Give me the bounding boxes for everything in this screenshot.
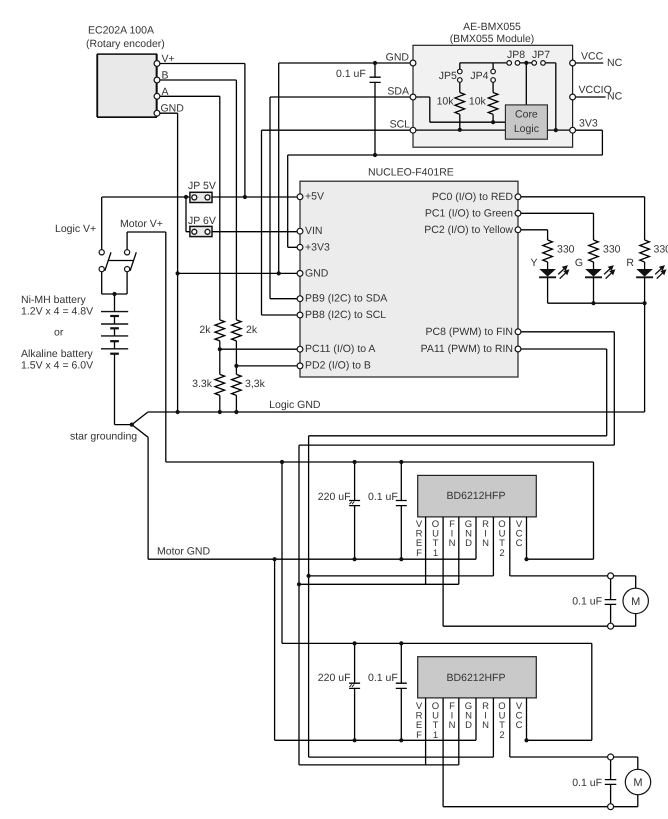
svg-text:0.1 uF: 0.1 uF	[368, 491, 398, 503]
svg-text:330: 330	[557, 243, 575, 255]
svg-text:PD2 (I/O) to B: PD2 (I/O) to B	[305, 360, 371, 372]
svg-text:PC0 (I/O) to RED: PC0 (I/O) to RED	[432, 191, 514, 203]
svg-text:10k: 10k	[437, 96, 455, 108]
svg-text:B: B	[162, 70, 169, 82]
svg-text:Core: Core	[515, 109, 538, 121]
svg-text:PC2 (I/O) to Yellow: PC2 (I/O) to Yellow	[424, 224, 513, 236]
svg-text:(BMX055 Module): (BMX055 Module)	[450, 33, 535, 45]
svg-text:VCC: VCC	[581, 51, 604, 63]
svg-text:N: N	[449, 720, 456, 731]
svg-text:3,3k: 3,3k	[245, 378, 266, 390]
svg-text:SCL: SCL	[390, 119, 411, 131]
svg-text:NUCLEO-F401RE: NUCLEO-F401RE	[368, 167, 454, 179]
svg-text:V+: V+	[162, 53, 175, 65]
svg-text:0.1 uF: 0.1 uF	[368, 672, 398, 684]
svg-text:VIN: VIN	[305, 225, 323, 237]
svg-text:G: G	[575, 257, 583, 269]
svg-text:10k: 10k	[469, 96, 487, 108]
svg-text:JP 6V: JP 6V	[188, 215, 216, 227]
svg-text:M: M	[631, 596, 640, 608]
svg-text:2k: 2k	[199, 324, 211, 336]
svg-text:SDA: SDA	[387, 86, 409, 98]
svg-text:PC8 (PWM) to FIN: PC8 (PWM) to FIN	[425, 326, 513, 338]
svg-text:BD6212HFP: BD6212HFP	[447, 672, 506, 684]
svg-text:A: A	[162, 86, 169, 98]
svg-text:PB9 (I2C) to SDA: PB9 (I2C) to SDA	[305, 293, 387, 305]
svg-text:(Rotary encoder): (Rotary encoder)	[86, 38, 165, 50]
svg-text:0.1 uF: 0.1 uF	[572, 777, 602, 789]
svg-text:GND: GND	[386, 52, 410, 64]
svg-text:F: F	[416, 730, 422, 741]
svg-text:R: R	[626, 257, 634, 269]
svg-text:C: C	[516, 538, 523, 549]
svg-text:or: or	[54, 327, 64, 339]
svg-text:0.1 uF: 0.1 uF	[572, 596, 602, 608]
svg-text:NC: NC	[607, 91, 623, 103]
svg-text:PB8 (I2C) to SCL: PB8 (I2C) to SCL	[305, 309, 386, 321]
svg-text:GND: GND	[305, 267, 329, 279]
svg-text:N: N	[449, 538, 456, 549]
svg-text:PA11 (PWM) to RIN: PA11 (PWM) to RIN	[421, 343, 513, 355]
svg-text:PC11 (I/O) to A: PC11 (I/O) to A	[305, 343, 375, 355]
svg-text:JP8: JP8	[507, 49, 525, 61]
svg-text:+3V3: +3V3	[305, 241, 330, 253]
svg-text:1.2V x 4 = 4.8V: 1.2V x 4 = 4.8V	[21, 306, 93, 318]
svg-text:Y: Y	[530, 257, 537, 269]
svg-text:+5V: +5V	[305, 191, 324, 203]
svg-text:PC1 (I/O) to Green: PC1 (I/O) to Green	[425, 207, 513, 219]
svg-text:Alkaline battery: Alkaline battery	[21, 348, 94, 360]
svg-text:330: 330	[603, 243, 621, 255]
svg-text:1.5V x 4 = 6.0V: 1.5V x 4 = 6.0V	[21, 360, 93, 372]
svg-text:Logic: Logic	[514, 123, 539, 135]
svg-text:AE-BMX055: AE-BMX055	[463, 21, 521, 33]
svg-text:JP7: JP7	[532, 49, 550, 61]
svg-text:1: 1	[433, 548, 438, 559]
svg-text:JP4: JP4	[470, 70, 488, 82]
svg-text:N: N	[482, 720, 489, 731]
svg-text:JP 5V: JP 5V	[188, 180, 216, 192]
svg-text:3V3: 3V3	[579, 118, 598, 130]
svg-text:D: D	[465, 720, 472, 731]
svg-text:EC202A 100A: EC202A 100A	[88, 25, 154, 37]
svg-text:220 uF: 220 uF	[318, 491, 351, 503]
svg-text:1: 1	[433, 730, 438, 741]
svg-text:JP5: JP5	[439, 70, 457, 82]
svg-text:GND: GND	[161, 102, 185, 114]
svg-text:F: F	[416, 548, 422, 559]
svg-text:star grounding: star grounding	[70, 431, 137, 443]
svg-text:NC: NC	[607, 57, 623, 69]
svg-text:D: D	[465, 538, 472, 549]
svg-text:3.3k: 3.3k	[192, 378, 213, 390]
svg-text:2: 2	[499, 548, 504, 559]
svg-text:Logic V+: Logic V+	[55, 223, 96, 235]
svg-text:Logic GND: Logic GND	[269, 399, 321, 411]
svg-text:C: C	[516, 720, 523, 731]
svg-text:Motor V+: Motor V+	[120, 218, 163, 230]
svg-text:330: 330	[654, 243, 668, 255]
svg-text:N: N	[482, 538, 489, 549]
svg-text:Motor GND: Motor GND	[157, 546, 211, 558]
svg-text:M: M	[633, 777, 642, 789]
svg-text:BD6212HFP: BD6212HFP	[447, 490, 506, 502]
svg-text:2: 2	[499, 730, 504, 741]
svg-text:0.1 uF: 0.1 uF	[336, 68, 366, 80]
svg-text:2k: 2k	[246, 324, 258, 336]
svg-text:220 uF: 220 uF	[318, 672, 351, 684]
svg-text:Ni-MH battery: Ni-MH battery	[21, 294, 87, 306]
